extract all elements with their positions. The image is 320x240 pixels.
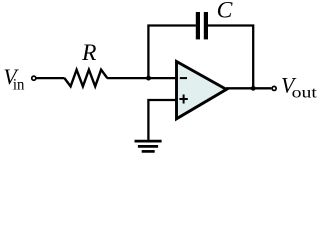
wire feedback left (148, 26, 196, 79)
svg-text:C: C (217, 0, 233, 23)
svg-text:in: in (13, 76, 25, 93)
op-amp U1 (177, 62, 227, 119)
resistor R (64, 70, 107, 87)
wire noninverting input (148, 100, 177, 140)
wire resistor to inverting input (107, 77, 177, 79)
svg-text:out: out (292, 85, 318, 102)
capacitor C (198, 12, 206, 39)
wire feedback right (208, 26, 253, 89)
svg-text:R: R (81, 40, 97, 66)
terminal Vout (272, 86, 276, 90)
terminal Vin (32, 76, 36, 80)
node input junction (146, 76, 151, 81)
wire input (36, 77, 64, 79)
node output junction (251, 86, 256, 91)
label Vin (3, 65, 24, 94)
wire output (226, 87, 271, 89)
label Vout (281, 74, 318, 102)
ground (135, 141, 162, 151)
